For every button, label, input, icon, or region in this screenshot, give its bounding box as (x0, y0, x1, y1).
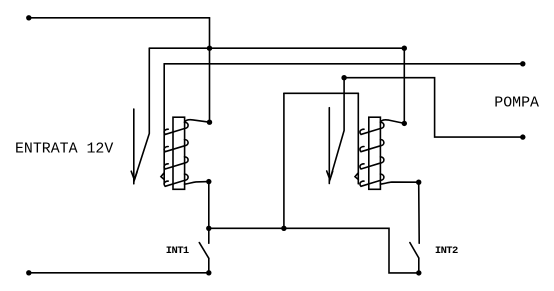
node: INT2 bottom terminal (416, 270, 421, 275)
relay K1 coil winding turn 2 (164, 140, 188, 152)
node: coil1 top terminal (207, 120, 212, 125)
relay K2 coil winding turn 2 (360, 140, 384, 152)
wire: horizontal y=228.3 from junction right, elbow down to INT2 bottom (209, 228, 419, 273)
wire: vertical x=208.8 coil1 bottom down to INT1 top (208, 182, 210, 244)
relay K2 switch: left fixed contact line (328, 108, 330, 184)
node: relay K2 blade feed junction (341, 75, 346, 80)
wire: horizontal y=93.3 feed to relay2 right contact (284, 92, 358, 94)
relay K1 switch: left contact arrowhead (131, 171, 137, 180)
relay K1 coil winding turn 4 (164, 174, 188, 186)
wire: INT1 blade bottom to lower terminal (208, 258, 210, 273)
node: bottom-left return terminal (26, 270, 31, 275)
node junction at (283.9,228.3) (281, 226, 286, 231)
relay K2 switch: right contact arrowhead (355, 173, 358, 180)
wire: from blade node right, elbow down to POMPA terminal 2 (344, 78, 523, 137)
svg-text:POMPA: POMPA (494, 95, 539, 111)
wire: horizontal y=63.8 from relay1 right contact to POMPA terminal 1 (164, 63, 523, 65)
relay K1 coil core rectangle (173, 117, 185, 189)
wire: bottom-left horizontal to return terminal (29, 272, 209, 274)
wire: vertical x=283.9 up to relay2 right contact feed (283, 93, 285, 228)
svg-text:INT1: INT1 (166, 245, 189, 257)
relay K2 coil core rectangle (369, 117, 381, 189)
relay K2 switch: right fixed contact line (357, 93, 359, 184)
wire: vertical coil2 bottom down to INT2 top (418, 182, 421, 243)
switch INT1 blade (199, 243, 209, 259)
wire: top horizontal from input terminal (29, 17, 210, 19)
relay K1 coil top stub to node (185, 120, 210, 123)
relay K2 coil bottom stub to node (380, 182, 418, 184)
svg-text:INT2: INT2 (435, 245, 458, 257)
relay K1 switch: left fixed contact line (133, 109, 135, 184)
relay K1 coil winding turn 3 (164, 157, 188, 169)
node: coil1 bottom terminal (206, 179, 211, 184)
relay K2 coil top stub to node (380, 120, 404, 124)
relay K2 coil winding turn 1 (360, 122, 384, 134)
relay K1 switch: blade (vertical from y=48 corner then diagonal) (135, 48, 150, 179)
node: coil2 top terminal (402, 121, 407, 126)
relay K2 coil winding turn 3 (360, 157, 384, 169)
node junction at (208.8,228.3) (206, 226, 211, 231)
node junction at (209.5,48) (207, 46, 212, 51)
node: INT1 bottom terminal (206, 270, 211, 275)
relay K1 coil winding turn 1 (164, 122, 188, 134)
wire: vertical x=209.5 from top down to coil1 top (209, 18, 211, 122)
relay K2 switch: blade hanging from node (330, 78, 344, 180)
svg-text:ENTRATA 12V: ENTRATA 12V (15, 141, 113, 157)
wire: horizontal y=48 from blade1 corner to coil2 vertical (149, 47, 404, 49)
node junction at (404.3,48.2) (402, 46, 407, 51)
wire: vertical x=404.3 down to coil2 top (403, 48, 405, 123)
node: POMPA terminal 2 (520, 134, 525, 139)
relay K1 coil bottom stub to node (185, 182, 209, 185)
node: 12V input top terminal (26, 15, 31, 20)
node: POMPA terminal 1 (520, 61, 525, 66)
relay K1 switch: right fixed contact line (163, 64, 165, 184)
relay K2 coil winding turn 4 (360, 174, 384, 186)
node: coil2 bottom terminal (416, 180, 421, 185)
switch INT2 blade (410, 243, 419, 258)
wire: INT2 blade bottom to lower terminal (418, 258, 420, 273)
relay K1 switch: right contact arrowhead (161, 173, 164, 180)
relay K2 switch: left contact arrowhead (327, 171, 333, 180)
